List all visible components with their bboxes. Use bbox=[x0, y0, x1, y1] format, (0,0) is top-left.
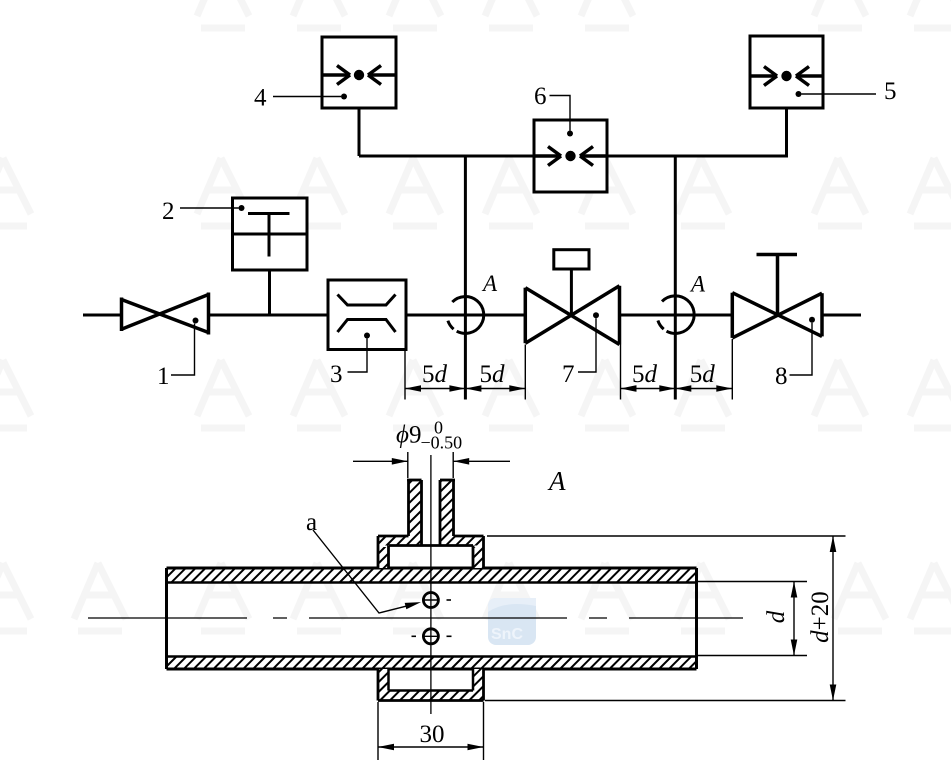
svg-text:A: A bbox=[547, 466, 566, 496]
label 4 bbox=[254, 85, 347, 112]
nozzle box 6 bbox=[534, 120, 607, 192]
label a leader bbox=[306, 509, 422, 613]
top boss neck hatch bbox=[409, 480, 422, 536]
svg-text:2: 2 bbox=[162, 198, 175, 225]
svg-text:4: 4 bbox=[254, 85, 267, 112]
dimension 5d texts bbox=[422, 361, 715, 388]
top boss outline bbox=[378, 480, 484, 568]
svg-text:5d: 5d bbox=[690, 361, 716, 388]
wire vertical through circle A left bbox=[464, 156, 467, 400]
dimension extension lines 5d bbox=[405, 339, 732, 400]
svg-text:A: A bbox=[481, 271, 498, 296]
circle A left bbox=[448, 297, 484, 334]
svg-text:3: 3 bbox=[330, 361, 343, 388]
wire main pipe line bbox=[83, 314, 861, 317]
vertical centerline bbox=[430, 455, 432, 714]
label 1 bbox=[157, 318, 199, 391]
venturi box 3 bbox=[328, 280, 406, 350]
svg-text:1: 1 bbox=[157, 363, 170, 390]
top boss flange hatch bbox=[378, 536, 422, 546]
svg-text:A: A bbox=[689, 272, 706, 297]
svg-text:7: 7 bbox=[562, 361, 575, 388]
dimension 5d arrows bbox=[405, 385, 732, 392]
hole a upper circle bbox=[423, 593, 452, 608]
label 7 bbox=[562, 312, 599, 388]
wire vertical through circle A right bbox=[674, 156, 677, 400]
dimension phi9 text bbox=[396, 418, 462, 453]
pipe bottom wall hatch bbox=[167, 657, 697, 670]
valve 8 stem bbox=[757, 255, 798, 316]
horizontal centerline bbox=[88, 617, 744, 619]
svg-text:8: 8 bbox=[775, 363, 788, 390]
label 2 bbox=[162, 198, 245, 225]
valve 8 bbox=[732, 293, 822, 338]
label 8 bbox=[775, 317, 815, 390]
hole lower circle bbox=[412, 629, 452, 644]
valve 7 actuator bbox=[554, 250, 589, 316]
wire drop from box 2 bbox=[268, 270, 271, 315]
svg-text:SnC: SnC bbox=[491, 626, 523, 643]
dimension d+20 bbox=[485, 536, 846, 701]
svg-text:d: d bbox=[763, 610, 790, 623]
circle A right bbox=[658, 296, 694, 334]
svg-text:6: 6 bbox=[534, 83, 547, 110]
wire drop from box 5 bbox=[785, 108, 788, 158]
nozzle box 5 bbox=[750, 36, 823, 108]
pipe top wall hatch bbox=[167, 568, 697, 583]
svg-text:5: 5 bbox=[884, 78, 897, 105]
svg-text:−0.50: −0.50 bbox=[421, 433, 463, 453]
regulator box 2 bbox=[233, 198, 308, 270]
nozzle box 4 bbox=[322, 37, 396, 108]
svg-text:d+20: d+20 bbox=[807, 591, 834, 643]
label 3 bbox=[330, 333, 370, 389]
svg-text:ϕ9: ϕ9 bbox=[396, 422, 421, 449]
dimension 5d lines bbox=[405, 388, 732, 390]
svg-text:5d: 5d bbox=[632, 361, 658, 388]
label 6 bbox=[534, 83, 573, 137]
wire drop from box 4 bbox=[358, 108, 361, 156]
dimension 30 bbox=[378, 702, 484, 760]
bottom boss hatch bbox=[378, 669, 389, 700]
dimension phi9 bbox=[353, 452, 510, 478]
svg-text:5d: 5d bbox=[480, 361, 506, 388]
label 5 bbox=[796, 78, 897, 105]
dimension d bbox=[698, 582, 807, 656]
bottom boss outline bbox=[378, 669, 484, 701]
svg-text:5d: 5d bbox=[422, 361, 448, 388]
wire bus line bbox=[359, 155, 787, 158]
valve 7 bbox=[525, 286, 619, 345]
pipe outline bbox=[167, 568, 697, 669]
valve 1 bbox=[122, 293, 209, 335]
svg-text:30: 30 bbox=[420, 721, 445, 748]
